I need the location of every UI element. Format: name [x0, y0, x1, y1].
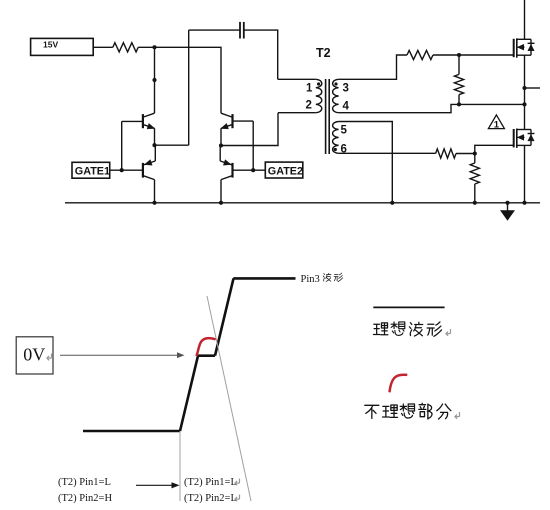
wire to transformer pin1 [278, 78, 316, 80]
wire Q4 emitter up to output [219, 146, 221, 162]
svg-text:(T2) Pin2=L: (T2) Pin2=L [184, 493, 237, 504]
node GATE2 junction [251, 168, 255, 172]
transformer T2 secondary2 phase dot [334, 148, 337, 151]
0V arrowhead [177, 352, 185, 358]
svg-text:GATE1: GATE1 [75, 166, 110, 178]
svg-text:GATE2: GATE2 [268, 166, 303, 178]
svg-text:4: 4 [343, 101, 350, 113]
transistor Q2 emitter [143, 161, 155, 165]
transistor Q3 (NPN upper right) base bar [231, 114, 233, 128]
legend ideal line [373, 306, 444, 308]
resistor R5 [470, 163, 479, 184]
svg-text:1: 1 [306, 83, 313, 95]
node rail ground junction [505, 201, 509, 205]
waveform rising edge 2 [215, 278, 234, 355]
transistor Q2 emitter arrow [144, 160, 152, 166]
wire pin6 to R4 [339, 152, 436, 154]
return mark in 0V box [47, 354, 52, 361]
transistor Q4 collector [221, 176, 232, 180]
wire M1 source to M2 drain [524, 88, 526, 130]
node gate2 divider junction [473, 151, 477, 155]
svg-text:3: 3 [343, 83, 349, 95]
node rail M2 junction [522, 201, 526, 205]
bottom arrow line [136, 484, 173, 486]
wire R2 to gate node [433, 54, 459, 56]
wire base tie vertical right [252, 121, 254, 170]
transformer T2 primary phase dot [317, 82, 320, 85]
wire to transformer pin2 [278, 112, 316, 114]
MOSFET M1 gate bar [513, 39, 515, 57]
node divider bottom junction [457, 102, 461, 106]
node rail R5 junction [473, 201, 477, 205]
node gate1 divider junction [457, 53, 461, 57]
wire gate2 node down to R5 [474, 154, 476, 164]
thin vertical marker line [179, 431, 181, 501]
wire top to capacitor [189, 29, 240, 31]
legend red arc [390, 375, 408, 393]
resistor R3 [454, 74, 463, 94]
wire Q3 base right [233, 120, 254, 122]
wire R3 to source node [458, 95, 460, 105]
wire gate node to M1 gate [459, 54, 514, 56]
wire gate node down to R3 [458, 55, 460, 74]
transistor Q2 collector [143, 176, 154, 180]
transistor Q1 emitter [143, 125, 154, 129]
wire GATE2 to bases [233, 169, 266, 171]
MOSFET M2 gate bar [513, 129, 515, 147]
MOSFET M1 source stub [517, 54, 531, 56]
transistor Q1 emitter arrow [147, 123, 155, 128]
svg-text:Pin3: Pin3 [301, 274, 320, 285]
wire Q2 emitter up to output [154, 145, 156, 161]
resistor R4 [436, 149, 456, 158]
label char wave [323, 273, 331, 281]
waveform low level [83, 430, 180, 433]
wire capacitor to corner [244, 30, 278, 79]
legend text ideal waveform [373, 323, 387, 335]
0V box [16, 337, 53, 374]
transistor Q4 emitter [220, 161, 232, 165]
transistor Q3 emitter arrow [221, 123, 229, 128]
MOSFET M2 channel bar [516, 129, 518, 148]
ground rail bottom [65, 202, 540, 204]
MOSFET M1 body arrow [518, 46, 525, 48]
transistor Q4 (PNP lower right) base bar [231, 163, 233, 178]
capacitor C1 plate left [239, 22, 241, 39]
transformer T2 secondary1 phase dot [334, 82, 337, 85]
bottom arrowhead [172, 482, 180, 488]
svg-text:5: 5 [341, 125, 348, 137]
wire Q1 base [122, 120, 143, 122]
label char form [334, 273, 343, 282]
transformer T2 secondary winding 3-4 [333, 79, 339, 112]
wire GATE1 to bases [109, 169, 143, 171]
svg-text:2: 2 [306, 100, 312, 112]
MOSFET M2 right vertical [530, 130, 532, 146]
warning triangle callout 1 [488, 115, 504, 129]
wire M2 source down to rail [524, 145, 526, 202]
node right output junction [219, 143, 223, 147]
red non-ideal bump [196, 338, 215, 356]
MOSFET M1 right vertical [530, 39, 532, 55]
legend text non-ideal part [365, 405, 379, 418]
wire pin5 down to rail [339, 122, 393, 203]
ground symbol [507, 203, 509, 211]
wire left output to riser [155, 144, 189, 146]
MOSFET M2 body arrow [518, 136, 525, 138]
wire source stub right [525, 87, 541, 89]
svg-text:1: 1 [494, 119, 500, 130]
MOSFET M2 source stub [517, 144, 531, 146]
wire M1 source down [524, 55, 526, 88]
transformer T2 core [326, 79, 330, 154]
MOSFET M2 drain stub [517, 129, 531, 131]
wire R1 to supply node [138, 46, 154, 48]
0V arrow line [60, 354, 179, 356]
wire supply rail to right pair collector [155, 47, 222, 113]
transistor Q2 (PNP lower left) base bar [142, 163, 144, 178]
transformer T2 secondary winding 5-6 [333, 122, 339, 154]
node GATE1 junction [120, 168, 124, 172]
svg-text:(T2) Pin1=L: (T2) Pin1=L [58, 477, 111, 488]
transistor Q1 collector [143, 113, 154, 117]
wire continue to Q1 [154, 80, 156, 113]
wire base tie vertical left [121, 121, 123, 170]
transistor Q3 emitter [221, 125, 232, 129]
transistor Q3 collector [221, 113, 232, 117]
wire source node to M1 source line [459, 103, 525, 105]
wire gate2 node to M2 gate [475, 145, 514, 153]
wire Q1 emitter to output node [154, 128, 156, 145]
wire pin3 to gate network [339, 55, 407, 79]
waveform plateau step [198, 354, 215, 357]
transistor Q1 (NPN upper left) base bar [142, 114, 144, 128]
capacitor C1 plate right [243, 22, 245, 39]
wire right output to pin2 riser [221, 113, 278, 146]
node supply junction [152, 45, 156, 49]
GATE1 box [72, 162, 110, 178]
wire riser to top [188, 30, 190, 145]
node left output junction [152, 143, 156, 147]
GATE2 box [265, 162, 303, 178]
node rail second junction [219, 201, 223, 205]
thin ideal diagonal line [207, 296, 251, 501]
transistor Q4 emitter arrow [223, 160, 231, 166]
wire 15V to R1 [93, 46, 113, 48]
wire M1 drain up [524, 0, 526, 39]
15V source box [31, 38, 94, 55]
node rail pin5 junction [390, 201, 394, 205]
node M1 source stub junction [522, 86, 526, 90]
node M1 source-line junction [522, 102, 526, 106]
svg-text:(T2) Pin2=H: (T2) Pin2=H [58, 493, 112, 504]
svg-text:T2: T2 [316, 46, 331, 60]
svg-text:0V: 0V [23, 345, 45, 365]
wire pin4 to divider [339, 104, 459, 112]
wire Q2 collector to ground rail [154, 180, 156, 203]
MOSFET M1 body diode [528, 45, 534, 51]
wire R4 to gate2 node [456, 153, 475, 155]
MOSFET M2 body diode [528, 135, 534, 141]
node rail left junction [152, 201, 156, 205]
wire supply down to Q1 collector [154, 47, 156, 80]
transformer T2 primary winding [316, 79, 322, 112]
wire Q3 emitter to output node [220, 128, 222, 145]
wire Q4 collector to ground rail [220, 180, 222, 203]
MOSFET M1 channel bar [516, 38, 518, 57]
svg-text:(T2) Pin1=L: (T2) Pin1=L [184, 477, 237, 488]
waveform rising edge 1 [180, 356, 198, 431]
resistor R2 [407, 50, 433, 59]
MOSFET M1 drain stub [517, 38, 531, 40]
svg-text:15V: 15V [43, 40, 58, 50]
node mid segment dot [152, 78, 156, 82]
wire R5 to rail [474, 184, 476, 203]
resistor R1 [113, 43, 138, 52]
waveform high level [233, 277, 295, 280]
